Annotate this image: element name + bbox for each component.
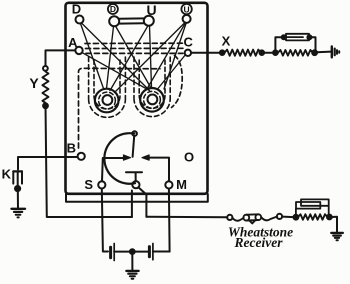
wire battery dot to ground [131,252,133,271]
armature arc [104,133,135,184]
left coil [95,89,119,113]
wire M down to battery [168,189,171,252]
junction dot at X [220,50,225,55]
svg-text:D: D [110,4,116,14]
receiver shunt left dot [294,215,299,220]
terminal M [165,181,172,188]
ground under K [12,209,26,218]
battery cell left [111,244,130,261]
terminal S [98,181,105,188]
receiver lead-in curve [232,218,243,221]
armature pivot circle [132,131,137,136]
terminal D [76,16,84,24]
receiver shunt right dot [327,215,332,220]
binding post under circled D [109,16,119,26]
wheatstone receiver coils [243,214,261,223]
svg-text:B: B [67,140,76,155]
circled D terminal [108,4,118,14]
battery cell right [135,244,170,260]
wire left contact to S [102,158,123,181]
svg-text:X: X [222,34,231,49]
terminal under circled U [183,15,191,23]
retardation coil above receiver resistor [296,199,329,217]
connecting bar between posts [119,18,144,23]
wire up from return to tongue terminal [131,191,133,218]
wire B to key K [18,157,78,170]
tongue terminal circle [132,181,139,188]
junction dot after resistor [260,50,265,55]
cord wires from terminals to coils [81,23,187,93]
box base plate [66,194,208,202]
ground bottom right [331,233,343,240]
svg-text:C: C [184,35,194,50]
wire right contact to M [149,158,169,182]
resistor on line X [225,50,261,56]
key/plug K [13,171,22,186]
shunted resistor bottom branch [278,50,313,56]
dashed bell around left coil [94,60,120,109]
right shunt junction dot [312,50,317,55]
wire to shunt junction [262,52,276,54]
Y coil top terminal [43,66,48,71]
svg-text:M: M [176,177,187,192]
earth ground right (sideways) [332,46,339,57]
dot right of condenser [307,35,311,39]
wire from Y down and right to armature return [46,106,132,217]
svg-text:K: K [2,167,12,182]
wire tongue circuit to receiver [146,216,227,219]
receiver shunt resistor [298,214,327,220]
left contact arrow [123,155,130,160]
left shunt junction dot [273,50,278,55]
wire from A to Y coil [46,50,76,66]
shunt top branch wires [275,37,315,52]
terminal B [78,153,85,160]
resistance coil Y [42,71,48,103]
svg-text:O: O [184,149,194,164]
svg-text:S: S [84,177,93,192]
back stop T [126,172,142,181]
binding post under U [144,16,154,26]
dashed bell around right coil [139,60,165,108]
right coil [140,88,164,112]
terminal A [75,47,82,54]
condenser box on shunt [284,34,309,41]
wire to receiver shunt [282,216,293,219]
receiver right terminal [277,214,282,219]
dashed outer curve from C around right coil [172,56,183,108]
wire C to line X [191,52,220,54]
wire to ground bottom right [332,217,337,233]
svg-text:Y: Y [29,75,39,91]
receiver right curve [261,217,277,221]
dashed yoke lines between A and C [85,43,184,53]
label Wheatstone Receiver [228,225,293,251]
wire K to ground [17,189,19,209]
circled U terminal [181,4,191,14]
ground under battery [126,271,138,279]
wire to earth right [317,51,331,54]
svg-text:Receiver: Receiver [234,235,284,250]
junction dot below K [15,186,20,191]
junction dot below Y [43,103,48,108]
armature tongue [133,136,135,157]
diagonal from tongue terminal [139,188,147,217]
battery junction dot [130,249,135,254]
svg-text:U: U [184,4,190,14]
dot left of condenser [282,35,286,39]
receiver left terminal [227,215,232,220]
right contact arrow [142,155,149,160]
svg-text:D: D [72,2,81,17]
dashed magnet frame left side down to B [79,68,161,148]
terminal C [185,50,191,56]
wire S to battery [102,189,108,252]
instrument box outline [66,3,208,194]
